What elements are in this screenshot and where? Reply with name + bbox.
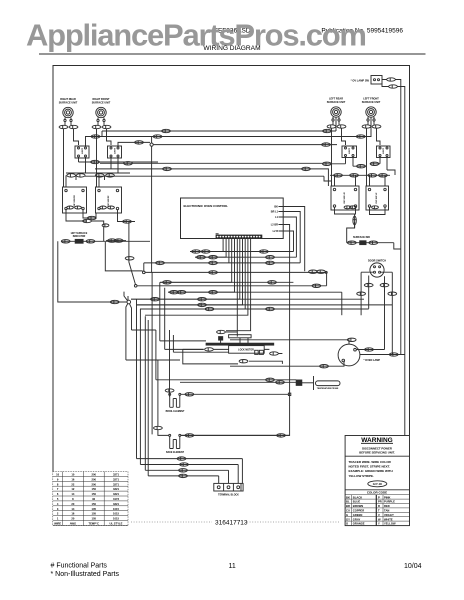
svg-text:DOOR SWITCH: DOOR SWITCH — [368, 259, 386, 262]
svg-text:WHITE: WHITE — [384, 517, 393, 521]
oval below inf sw RF — [102, 224, 109, 227]
oval row y173 — [66, 172, 130, 174]
wire coil1 right lead to limiter RR — [74, 129, 79, 145]
svg-text:LIMIT: LIMIT — [349, 147, 351, 153]
ov lamp sw ovals — [387, 78, 396, 81]
wire left drop to x node — [58, 241, 109, 302]
surface unit coils — [59, 107, 381, 129]
svg-text:INF SW LF: INF SW LF — [376, 192, 378, 204]
wire run R10 — [140, 308, 369, 310]
wire between inf sw boxes — [83, 210, 96, 219]
lock area ovals — [205, 348, 214, 351]
svg-text:V: V — [378, 513, 380, 517]
junction B — [134, 285, 137, 288]
svg-text:3173: 3173 — [113, 497, 119, 501]
svg-text:10: 10 — [56, 473, 59, 477]
coil terminal circles — [64, 119, 375, 122]
svg-text:TEMP°C: TEMP°C — [88, 522, 99, 526]
wire limiter RR bottom down — [79, 157, 86, 173]
svg-text:BK: BK — [346, 495, 350, 499]
svg-text:WIRING DIAGRAM: WIRING DIAGRAM — [203, 45, 260, 52]
svg-text:1015: 1015 — [113, 517, 119, 521]
inf sw RR box — [63, 187, 87, 213]
svg-text:YELLOW STRIPE.: YELLOW STRIPE. — [349, 474, 375, 478]
inf sw RF box — [96, 187, 122, 213]
wire run y176 — [85, 176, 331, 181]
svg-text:PURPLE: PURPLE — [384, 500, 395, 504]
svg-text:3321: 3321 — [113, 492, 119, 496]
junction J2 branches — [152, 137, 337, 273]
svg-text:NOTED FIRST, STRIPE NEXT.: NOTED FIRST, STRIPE NEXT. — [349, 465, 391, 469]
lock area wires — [183, 349, 283, 364]
wires below inf sw RR — [66, 210, 87, 222]
wire inf sw RF right pin down — [118, 210, 136, 222]
inf sw LR box — [331, 186, 359, 210]
wire run R4 to door switch — [145, 271, 327, 273]
svg-text:INF SW LR: INF SW LR — [344, 192, 346, 204]
right oval row y175 — [330, 174, 390, 176]
svg-text:200: 200 — [91, 477, 96, 481]
lamp right wires — [356, 276, 384, 349]
X junction node and left bundle — [109, 272, 229, 476]
limiter LR box — [342, 146, 357, 158]
svg-text:SURFACE IND: SURFACE IND — [353, 236, 370, 239]
svg-text:INF SW RR: INF SW RR — [74, 195, 76, 207]
svg-text:LOCK MOTOR: LOCK MOTOR — [238, 350, 254, 352]
below inf sw LR — [335, 207, 356, 214]
svg-text:Y: Y — [378, 522, 380, 526]
wire run R1 — [190, 251, 294, 253]
svg-text:L2 R: L2 R — [273, 230, 279, 233]
wire run R5 — [160, 281, 293, 283]
ov lamp sw box — [371, 76, 382, 85]
svg-text:10: 10 — [71, 473, 74, 477]
limiter LF bottom leads — [380, 157, 387, 171]
svg-text:CU: CU — [346, 509, 350, 513]
svg-text:105: 105 — [91, 517, 96, 521]
diagram frame — [53, 66, 410, 472]
fan wires from node — [124, 292, 128, 301]
svg-text:EXAMPLE: GREEN WIRE WITH: EXAMPLE: GREEN WIRE WITH — [349, 469, 393, 473]
svg-text:3271: 3271 — [113, 473, 119, 477]
svg-text:22: 22 — [71, 482, 74, 486]
wire down to surface ind — [354, 214, 356, 228]
svg-text:INF SW RF: INF SW RF — [108, 195, 110, 207]
left infinite switch boxes — [63, 187, 122, 213]
terminal runs — [137, 457, 243, 484]
limiter LR bottom leads — [346, 157, 354, 167]
svg-text:BL: BL — [346, 500, 350, 504]
broil element — [165, 389, 291, 408]
wire limiter RF top to junction J2 — [118, 142, 150, 147]
middle horizontal feed runs — [85, 117, 371, 186]
svg-text:105: 105 — [91, 512, 96, 516]
coil lead wires — [65, 117, 374, 125]
left limiter boxes — [75, 146, 122, 158]
svg-text:BROWN: BROWN — [353, 504, 364, 508]
coil labels — [59, 98, 381, 105]
wire coil2 left lead down to inf sw RF — [97, 129, 100, 187]
junction C — [143, 271, 146, 274]
wire indicator drop to junction C — [105, 242, 142, 271]
wire coil3 left lead down — [332, 128, 335, 186]
right network wires and ovals — [322, 128, 401, 249]
limiter RF box — [108, 146, 122, 158]
svg-text:20: 20 — [71, 502, 74, 506]
svg-text:AWG: AWG — [70, 522, 76, 526]
svg-text:AppliancePartsPros.com: AppliancePartsPros.com — [26, 18, 367, 53]
svg-text:LIMIT: LIMIT — [82, 147, 84, 153]
svg-text:* Non-Illustrated Parts: * Non-Illustrated Parts — [51, 571, 120, 578]
right side horizontal runs — [131, 250, 392, 311]
small motor box — [219, 337, 223, 341]
wire coil1 left lead down to inf sw RR — [64, 129, 67, 187]
lock motor area — [183, 330, 283, 364]
limiter LF box — [377, 146, 391, 158]
svg-text:P: P — [378, 495, 380, 499]
svg-text:11: 11 — [229, 563, 236, 570]
svg-text:90: 90 — [92, 497, 95, 501]
svg-text:LIMIT: LIMIT — [115, 147, 117, 153]
svg-text:* OV LAMP SW: * OV LAMP SW — [351, 78, 370, 82]
wire limiter RF bottom down — [111, 157, 118, 173]
svg-text:VIOLET: VIOLET — [384, 513, 394, 517]
wire run y136.5 — [89, 117, 371, 136]
svg-text:R: R — [378, 504, 380, 508]
right limiter boxes — [342, 146, 390, 158]
EOC connector strip — [216, 234, 263, 239]
svg-text:TRACER WIRE. WIRE COLOR: TRACER WIRE. WIRE COLOR — [349, 460, 392, 464]
svg-text:PR: PR — [378, 500, 382, 504]
coil right rear surface unit — [63, 107, 73, 117]
coil left front surface unit — [366, 107, 376, 117]
svg-text:BEFORE SERVICING UNIT.: BEFORE SERVICING UNIT. — [359, 450, 395, 454]
node X — [127, 300, 131, 304]
warning box — [345, 436, 409, 526]
svg-text:3321: 3321 — [113, 502, 119, 506]
svg-text:YELLOW: YELLOW — [384, 522, 396, 526]
svg-text:1015: 1015 — [113, 512, 119, 516]
svg-text:ORANGE: ORANGE — [353, 522, 365, 526]
G/Y-18 oval — [368, 481, 387, 487]
svg-text:WIRE: WIRE — [54, 522, 61, 526]
oval mid drop — [125, 257, 134, 260]
wire coil2 right lead to limiter RF — [107, 129, 112, 145]
ov lamp sw wires — [382, 80, 401, 355]
svg-text:SURFACE UNIT: SURFACE UNIT — [327, 101, 346, 104]
EOC right stub wires — [181, 207, 305, 436]
wire coil3 right lead to limiter LR — [342, 128, 346, 145]
svg-text:14: 14 — [71, 507, 74, 511]
hot surface indicator row — [61, 240, 150, 242]
electronic oven control U1 — [181, 198, 284, 239]
svg-text:316417713: 316417713 — [215, 520, 248, 527]
wire run R2 — [195, 256, 296, 258]
svg-text:SURFACE UNIT: SURFACE UNIT — [362, 101, 381, 104]
wire limiter RR top jog to feed runs — [86, 131, 103, 146]
svg-text:WARNING: WARNING — [361, 437, 393, 444]
svg-text:COPPER: COPPER — [353, 509, 364, 513]
door switch S1 — [342, 263, 397, 355]
wire coil4 left lead down — [367, 128, 370, 186]
svg-text:200: 200 — [91, 473, 96, 477]
inf sw LF box — [366, 186, 389, 210]
coil left rear surface unit — [331, 107, 341, 117]
white bar — [229, 335, 252, 338]
svg-text:HOT SURFACE: HOT SURFACE — [71, 232, 88, 235]
bundle verticals — [137, 272, 174, 476]
svg-text:BR: BR — [346, 504, 350, 508]
wire run y163 — [100, 162, 322, 164]
terminal block — [214, 483, 243, 491]
temperature probe — [156, 376, 340, 390]
svg-text:BLACK: BLACK — [353, 495, 362, 499]
svg-text:10/04: 10/04 — [404, 563, 422, 570]
svg-text:BAKE ELEMENT: BAKE ELEMENT — [166, 451, 185, 454]
svg-text:200: 200 — [91, 482, 96, 486]
svg-text:1015: 1015 — [113, 507, 119, 511]
svg-text:3271: 3271 — [113, 482, 119, 486]
wire run R8 — [131, 298, 364, 300]
svg-text:150: 150 — [91, 492, 96, 496]
svg-text:LIMIT: LIMIT — [383, 147, 385, 153]
svg-text:* OVEN LAMP: * OVEN LAMP — [364, 359, 381, 362]
indicator lamp black box — [75, 239, 83, 243]
EOC strip drop wires — [131, 239, 251, 335]
part number 316417713 — [131, 521, 340, 523]
limiter RR box — [75, 146, 89, 158]
oven lamp switch top right — [371, 76, 405, 436]
svg-text:BR L1: BR L1 — [271, 211, 279, 214]
svg-text:BK: BK — [274, 206, 278, 209]
svg-text:105: 105 — [91, 507, 96, 511]
svg-text:3321: 3321 — [113, 487, 119, 491]
svg-text:GRAY: GRAY — [353, 517, 361, 521]
bake element — [154, 360, 290, 449]
left network wires and ovals — [58, 129, 337, 302]
svg-text:BLUE: BLUE — [353, 500, 361, 504]
below inf sw LF — [370, 207, 386, 215]
svg-text:RED: RED — [384, 504, 390, 508]
coil right front surface unit — [96, 107, 106, 117]
header rule — [39, 53, 426, 55]
svg-text:UL STYLE: UL STYLE — [110, 522, 123, 526]
svg-text:COLOR CODE: COLOR CODE — [367, 491, 387, 495]
surface ind row — [347, 243, 401, 249]
wire gauge table — [53, 472, 128, 526]
svg-text:150: 150 — [91, 487, 96, 491]
svg-text:14: 14 — [71, 492, 74, 496]
coil connector ovals — [59, 125, 381, 129]
wire run R5b — [249, 273, 327, 286]
svg-text:16: 16 — [71, 512, 74, 516]
svg-text:ELECTRONIC OVEN CONTROL: ELECTRONIC OVEN CONTROL — [184, 204, 229, 208]
svg-text:TEMPERATURE PROBE: TEMPERATURE PROBE — [317, 387, 339, 390]
svg-text:16: 16 — [71, 477, 74, 481]
svg-text:150: 150 — [91, 502, 96, 506]
svg-text:TERMINAL BLOCK: TERMINAL BLOCK — [218, 494, 239, 497]
svg-text:SURFACE UNIT: SURFACE UNIT — [59, 101, 78, 104]
svg-text:PINK: PINK — [384, 495, 390, 499]
wire run R9 — [136, 304, 392, 306]
wire run y169 — [95, 169, 328, 186]
svg-text:G: G — [346, 513, 348, 517]
right infinite switch boxes — [331, 186, 389, 210]
svg-text:INDICATOR: INDICATOR — [73, 235, 86, 238]
bundle top links — [126, 330, 229, 434]
svg-text:SURFACE UNIT: SURFACE UNIT — [92, 101, 111, 104]
oven lamp — [230, 276, 405, 437]
svg-text:3271: 3271 — [113, 477, 119, 481]
wire run y131 — [102, 117, 336, 131]
wire run R6 — [168, 291, 342, 293]
wire coil4 right lead to limiter LF — [377, 128, 381, 145]
lamp top wire — [230, 340, 349, 344]
svg-text:# Functional Parts: # Functional Parts — [51, 563, 108, 570]
door switch drop wires — [369, 276, 385, 309]
svg-text:GREEN: GREEN — [353, 513, 363, 517]
lock motor box — [229, 346, 265, 354]
inf sw bottom pin ovals — [67, 206, 74, 209]
junction node J2 — [150, 143, 153, 146]
wire run R3 — [144, 262, 300, 264]
lock motor black bar — [206, 343, 274, 345]
svg-text:G/Y-18: G/Y-18 — [373, 482, 382, 486]
svg-text:20: 20 — [71, 517, 74, 521]
svg-text:12: 12 — [71, 487, 74, 491]
svg-text:O: O — [346, 522, 348, 526]
svg-text:BROIL ELEMENT: BROIL ELEMENT — [166, 411, 185, 413]
svg-text:L2 BR: L2 BR — [271, 224, 278, 227]
svg-text:TAN: TAN — [384, 509, 389, 513]
svg-text:GY: GY — [346, 517, 350, 521]
